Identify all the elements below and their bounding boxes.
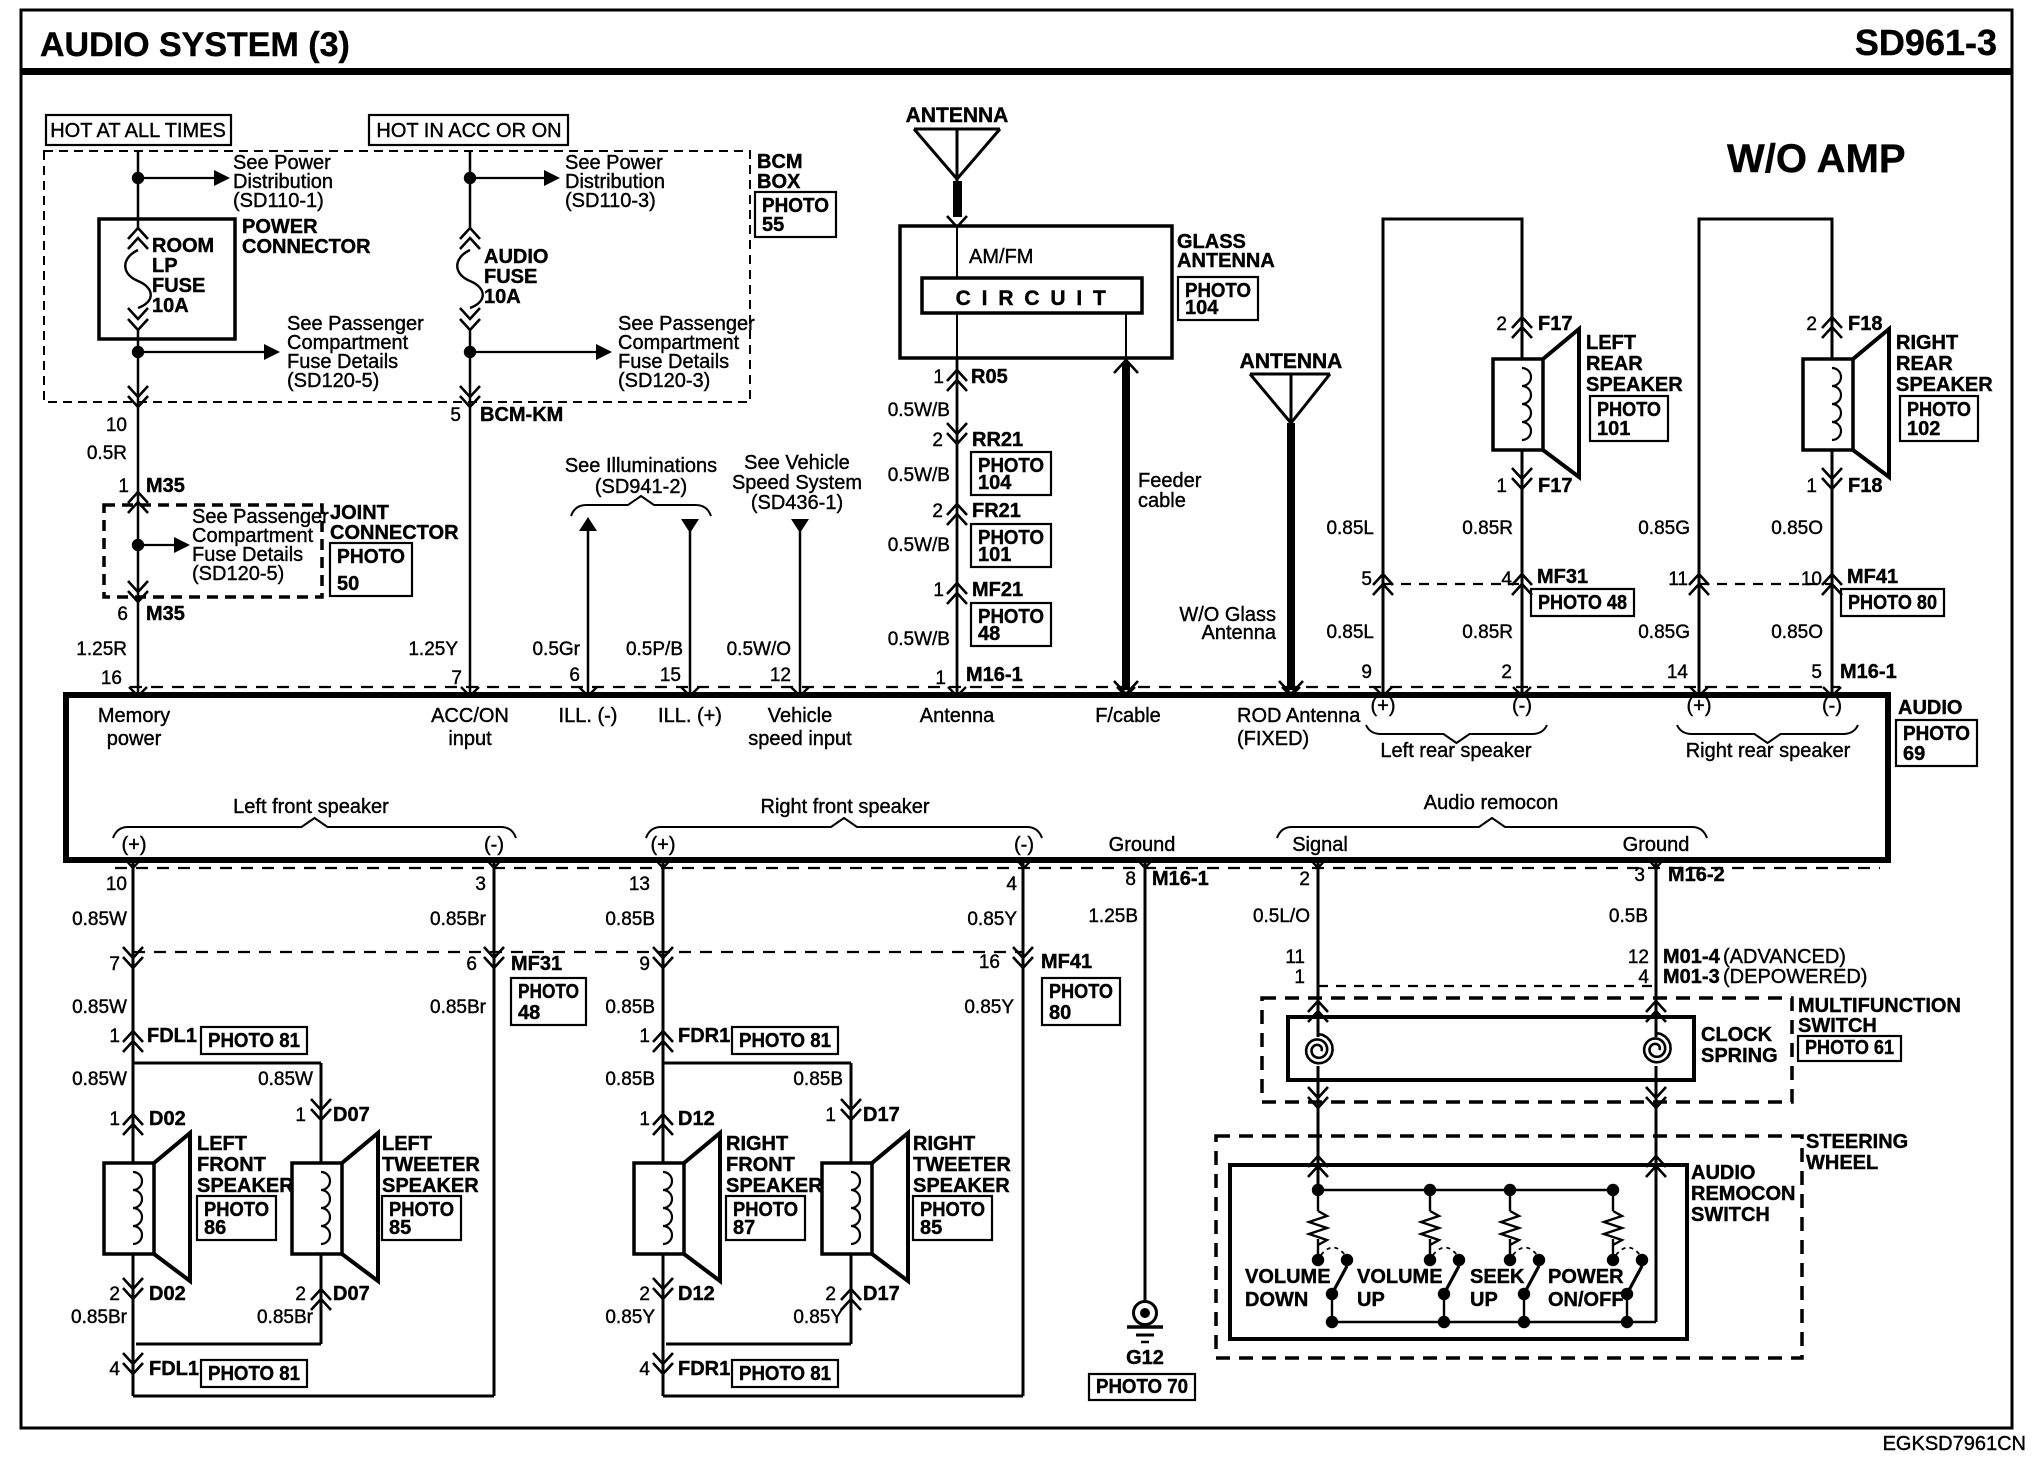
resistor switch 1	[1309, 1211, 1327, 1245]
svg-text:1: 1	[118, 476, 129, 497]
svg-text:MF31: MF31	[511, 953, 562, 975]
rod antenna bottom arrowhead	[1279, 681, 1303, 694]
resistor switch 2	[1421, 1211, 1439, 1245]
svg-text:0.5W/O: 0.5W/O	[727, 639, 791, 660]
svg-text:AUDIO: AUDIO	[484, 246, 548, 268]
svg-text:3: 3	[1634, 865, 1645, 886]
resistor lead switch 2	[1429, 1190, 1431, 1211]
svg-text:0.85Y: 0.85Y	[964, 997, 1014, 1018]
svg-text:10A: 10A	[152, 295, 189, 317]
svg-text:1: 1	[295, 1105, 306, 1126]
svg-text:0.85W: 0.85W	[258, 1069, 313, 1090]
svg-text:ROD Antenna: ROD Antenna	[1237, 705, 1361, 727]
svg-text:LEFT: LEFT	[382, 1133, 432, 1155]
switch 1 fixed contact	[1312, 1254, 1324, 1266]
svg-text:0.5Gr: 0.5Gr	[532, 639, 580, 660]
connector chevron D12 pin 2	[653, 1278, 673, 1299]
svg-text:Speed System: Speed System	[732, 472, 862, 494]
connector chevron D02 pin 2	[123, 1278, 143, 1299]
svg-text:SEEK: SEEK	[1470, 1266, 1525, 1288]
svg-text:4: 4	[1006, 874, 1017, 895]
dashed connector line M01	[1318, 985, 1656, 987]
svg-text:0.85W: 0.85W	[72, 997, 127, 1018]
connector chevron D07 pin 1	[311, 1099, 331, 1120]
svg-text:SPEAKER: SPEAKER	[1896, 374, 1993, 396]
wire signal 0.5L/O to clock spring	[1317, 860, 1320, 1037]
svg-text:2: 2	[932, 501, 943, 522]
junction inside joint connector	[132, 539, 144, 551]
photo ref box PHOTO 70 (G12)	[1089, 1374, 1195, 1400]
wire hot-at-all-times feed	[137, 151, 140, 228]
svg-text:0.85G: 0.85G	[1638, 622, 1690, 643]
svg-text:PHOTO 81: PHOTO 81	[739, 1363, 831, 1385]
svg-text:11: 11	[1285, 947, 1305, 968]
svg-text:15: 15	[660, 665, 681, 686]
svg-text:0.85B: 0.85B	[793, 1069, 843, 1090]
svg-text:FUSE: FUSE	[152, 275, 205, 297]
wire left front speaker bottom return	[133, 1395, 494, 1398]
power connector box	[99, 219, 235, 339]
arrow to passenger fuse details from joint connector	[138, 544, 176, 546]
wire left tweeter drop	[320, 1063, 323, 1163]
svg-text:D07: D07	[333, 1104, 370, 1126]
wire right front speaker bottom return	[663, 1395, 1023, 1398]
switch 2 blade pivot	[1438, 1288, 1450, 1300]
svg-text:(SD120-3): (SD120-3)	[618, 370, 710, 392]
clock spring spiral right	[1644, 1033, 1671, 1062]
svg-text:0.85O: 0.85O	[1771, 622, 1823, 643]
svg-text:LEFT: LEFT	[197, 1133, 247, 1155]
svg-text:0.5B: 0.5B	[1609, 906, 1648, 927]
feeder cable bottom arrowhead	[1114, 681, 1138, 694]
wire left tweeter return	[320, 1254, 323, 1344]
bus top pin antenna	[948, 687, 966, 696]
connector chevron below clock spring right	[1646, 1087, 1666, 1108]
svg-text:80: 80	[1049, 1002, 1071, 1024]
svg-text:(-): (-)	[1822, 695, 1842, 717]
svg-text:FDL1: FDL1	[147, 1025, 197, 1047]
svg-text:HOT AT ALL TIMES: HOT AT ALL TIMES	[50, 120, 226, 142]
svg-text:(-): (-)	[484, 834, 504, 856]
dashed connector line MF31/MF41 front	[133, 951, 1023, 953]
junction on room lp fuse wire	[132, 172, 144, 184]
svg-text:12: 12	[770, 665, 791, 686]
ground symbol G12	[1134, 1302, 1157, 1325]
photo ref box PHOTO 50	[330, 543, 412, 596]
svg-text:Audio remocon: Audio remocon	[1424, 792, 1559, 814]
wire right tweeter drop	[850, 1063, 853, 1163]
svg-text:0.5W/B: 0.5W/B	[888, 629, 950, 650]
photo ref box PHOTO 81 (FDR1 pin 4)	[732, 1360, 838, 1387]
svg-text:cable: cable	[1138, 490, 1186, 512]
bus top pin vss	[791, 687, 809, 696]
svg-text:PHOTO 81: PHOTO 81	[208, 1030, 300, 1052]
switch 2 blade	[1445, 1266, 1459, 1292]
svg-text:D07: D07	[333, 1283, 370, 1305]
switch 3 fixed contact	[1504, 1254, 1516, 1266]
svg-text:FR21: FR21	[972, 500, 1021, 522]
wire left front speaker (+) 0.85W	[132, 860, 135, 1163]
svg-text:ANTENNA: ANTENNA	[906, 104, 1009, 127]
wire vehicle speed input 0.5W/O	[799, 521, 802, 695]
svg-text:0.85L: 0.85L	[1326, 518, 1374, 539]
audio remocon switch box	[1230, 1165, 1687, 1339]
svg-text:3: 3	[475, 874, 486, 895]
svg-text:D17: D17	[863, 1104, 900, 1126]
bus top pin lr+	[1374, 687, 1392, 696]
connector chevron MF41 pin 11	[1689, 574, 1709, 595]
svg-text:Ground: Ground	[1109, 834, 1176, 856]
arrow to passenger compartment fuse details (SD120-3)	[470, 351, 598, 353]
svg-text:102: 102	[1907, 418, 1940, 440]
switch 1 blade pivot	[1326, 1288, 1338, 1300]
svg-text:1.25Y: 1.25Y	[408, 639, 458, 660]
svg-text:48: 48	[518, 1002, 540, 1024]
svg-text:(SD436-1): (SD436-1)	[751, 492, 843, 514]
bus bottom pin rgnd	[1647, 858, 1665, 868]
svg-text:PHOTO: PHOTO	[518, 981, 579, 1003]
brace right rear speaker	[1677, 725, 1858, 743]
svg-text:MF41: MF41	[1041, 951, 1092, 973]
svg-text:ANTENNA: ANTENNA	[1240, 350, 1343, 373]
junction top rail switch 4	[1607, 1184, 1619, 1196]
label box HOT IN ACC OR ON	[369, 115, 568, 145]
svg-text:PHOTO 81: PHOTO 81	[739, 1030, 831, 1052]
svg-text:PHOTO 48: PHOTO 48	[1538, 592, 1627, 614]
svg-text:VOLUME: VOLUME	[1357, 1266, 1443, 1288]
switch 4 moving contact	[1636, 1254, 1648, 1266]
junction bottom rail switch 2	[1438, 1316, 1450, 1328]
svg-text:10: 10	[106, 874, 127, 895]
bus top pin memory	[129, 687, 147, 696]
svg-text:RIGHT: RIGHT	[1896, 332, 1958, 354]
svg-text:FRONT: FRONT	[726, 1154, 795, 1176]
right front speaker	[634, 1163, 684, 1254]
svg-text:ANTENNA: ANTENNA	[1177, 250, 1275, 272]
svg-text:85: 85	[389, 1217, 411, 1239]
svg-text:AUDIO: AUDIO	[1898, 697, 1962, 719]
svg-text:AM/FM: AM/FM	[969, 246, 1033, 268]
svg-text:PHOTO 70: PHOTO 70	[1096, 1376, 1188, 1398]
svg-text:Left front speaker: Left front speaker	[233, 796, 389, 818]
svg-text:WHEEL: WHEEL	[1806, 1152, 1878, 1174]
connector chevron FDL1 pin 4	[123, 1353, 143, 1374]
svg-text:M35: M35	[146, 475, 185, 497]
wire right tweeter return	[850, 1254, 853, 1344]
header rule	[21, 68, 2012, 75]
wire right rear speaker (-) 0.85O	[1831, 450, 1834, 695]
bus top pin ill-	[579, 687, 597, 696]
svg-text:TWEETER: TWEETER	[382, 1154, 480, 1176]
photo ref box PHOTO 102 (right rear speaker)	[1900, 396, 1978, 441]
svg-text:48: 48	[978, 623, 1000, 645]
svg-text:D17: D17	[863, 1283, 900, 1305]
connector chevron MF31 pin 7	[123, 947, 143, 968]
svg-text:0.85W: 0.85W	[72, 1069, 127, 1090]
svg-text:ILL. (-): ILL. (-)	[559, 705, 618, 727]
svg-text:(SD110-3): (SD110-3)	[565, 190, 656, 212]
wire fuse output to audio pin 16	[137, 330, 140, 695]
connector chevron D17 pin 1	[841, 1099, 861, 1120]
left tweeter speaker	[292, 1163, 342, 1254]
svg-text:SWITCH: SWITCH	[1691, 1204, 1770, 1226]
svg-text:UP: UP	[1357, 1289, 1385, 1311]
connector chevron D12 pin 1	[653, 1114, 673, 1135]
svg-text:2: 2	[295, 1284, 306, 1305]
wire antenna into circuit	[956, 226, 958, 278]
bus top pin rod	[1282, 687, 1300, 696]
svg-text:5: 5	[1361, 569, 1372, 590]
connector chevron BCM-KM pin 5	[460, 386, 480, 407]
svg-text:(-): (-)	[1512, 695, 1532, 717]
svg-text:SPEAKER: SPEAKER	[726, 1175, 823, 1197]
svg-text:SPEAKER: SPEAKER	[382, 1175, 479, 1197]
svg-text:M16-2: M16-2	[1668, 864, 1725, 886]
svg-text:(+): (+)	[1371, 695, 1396, 717]
feeder cable (thick)	[1122, 362, 1130, 690]
svg-text:(-): (-)	[1014, 834, 1034, 856]
wire branch to right tweeter	[663, 1062, 851, 1065]
svg-text:RIGHT: RIGHT	[913, 1133, 975, 1155]
svg-text:POWER: POWER	[242, 216, 318, 238]
connector chevron below clock spring left	[1308, 1087, 1328, 1108]
svg-text:PHOTO 80: PHOTO 80	[1848, 592, 1937, 614]
svg-text:1: 1	[935, 668, 946, 689]
connector chevron D02 pin 1	[123, 1114, 143, 1135]
wire right front speaker (-) drop	[662, 1254, 665, 1396]
svg-text:speed input: speed input	[748, 728, 852, 750]
connector chevron R05 pin 1	[947, 370, 967, 391]
svg-text:MF31: MF31	[1537, 566, 1588, 588]
svg-text:G12: G12	[1126, 1347, 1164, 1369]
svg-text:STEERING: STEERING	[1806, 1131, 1908, 1153]
arrow to passenger compartment fuse details (SD120-5)	[138, 351, 266, 353]
svg-text:4: 4	[639, 1359, 650, 1380]
svg-text:VOLUME: VOLUME	[1245, 1266, 1331, 1288]
bus bottom pin lf+	[124, 858, 142, 868]
fuse ROOM LP FUSE 10A	[128, 228, 148, 249]
arrow up ILL (-)	[579, 517, 597, 531]
svg-text:1: 1	[1806, 476, 1817, 497]
svg-text:6: 6	[117, 604, 128, 625]
svg-text:SPRING: SPRING	[1701, 1045, 1778, 1067]
svg-text:1: 1	[109, 1109, 120, 1130]
connector chevron FDR1 pin 1	[653, 1031, 673, 1052]
wire left rear speaker (-) 0.85R	[1521, 450, 1524, 695]
svg-text:8: 8	[1125, 869, 1136, 890]
switch 4 blade pivot	[1621, 1288, 1633, 1300]
svg-text:MULTIFUNCTION: MULTIFUNCTION	[1798, 995, 1961, 1017]
svg-text:9: 9	[639, 954, 650, 975]
svg-text:F18: F18	[1848, 313, 1882, 335]
wire hot-in-acc feed	[469, 151, 472, 228]
photo ref box PHOTO 104 (glass antenna)	[1178, 277, 1258, 320]
svg-text:(+): (+)	[122, 834, 147, 856]
connector chevron into remocon switch right	[1646, 1156, 1666, 1177]
svg-text:16: 16	[101, 668, 122, 689]
wire right front speaker (+) 0.85B	[662, 860, 665, 1163]
svg-text:(SD120-5): (SD120-5)	[287, 370, 379, 392]
connector chevron MF41 pin 9	[653, 947, 673, 968]
svg-text:0.85Y: 0.85Y	[605, 1307, 655, 1328]
switch 2 dashed throw arc	[1433, 1248, 1457, 1256]
svg-text:MF21: MF21	[972, 579, 1023, 601]
multifunction switch dashed box	[1262, 998, 1792, 1102]
photo ref box PHOTO 48 (MF31 front)	[511, 978, 586, 1025]
svg-text:EGKSD7961CN: EGKSD7961CN	[1883, 1433, 2026, 1455]
svg-text:F18: F18	[1848, 475, 1882, 497]
wire right rear speaker (+) 0.85G	[1699, 219, 1832, 695]
svg-text:D12: D12	[678, 1108, 715, 1130]
steering wheel dashed box	[1216, 1136, 1802, 1358]
svg-text:(SD120-5): (SD120-5)	[192, 563, 284, 585]
svg-text:2: 2	[825, 1284, 836, 1305]
svg-text:SPEAKER: SPEAKER	[197, 1175, 294, 1197]
photo ref box PHOTO 55	[755, 192, 836, 237]
svg-text:M01-4: M01-4	[1663, 946, 1721, 968]
resistor switch 3	[1501, 1211, 1519, 1245]
switch 4 dashed throw arc	[1616, 1248, 1640, 1256]
svg-text:LP: LP	[152, 255, 178, 277]
svg-text:0.85O: 0.85O	[1771, 518, 1823, 539]
wire circuit to feeder output	[1125, 313, 1127, 358]
junction bottom rail switch 4	[1621, 1316, 1633, 1328]
switch 2 fixed contact	[1424, 1254, 1436, 1266]
svg-text:M35: M35	[146, 603, 185, 625]
photo ref box PHOTO 101 (FR21)	[971, 524, 1051, 567]
svg-text:HOT IN ACC OR ON: HOT IN ACC OR ON	[376, 120, 561, 142]
svg-text:1: 1	[933, 580, 944, 601]
right tweeter speaker	[822, 1163, 872, 1254]
wire antenna lead R05 chain	[956, 358, 959, 695]
svg-text:0.85B: 0.85B	[605, 997, 655, 1018]
svg-text:PHOTO 61: PHOTO 61	[1805, 1037, 1894, 1059]
svg-text:Memory: Memory	[98, 705, 170, 727]
svg-text:See Illuminations: See Illuminations	[565, 455, 717, 477]
svg-text:M16-1: M16-1	[1152, 868, 1209, 890]
svg-text:0.85R: 0.85R	[1462, 518, 1513, 539]
connector chevron M01 ground	[1646, 1001, 1666, 1022]
inner CIRCUIT box	[922, 278, 1142, 313]
photo ref box PHOTO 80 (MF41)	[1841, 589, 1944, 616]
svg-text:LEFT: LEFT	[1586, 332, 1636, 354]
svg-text:87: 87	[733, 1217, 755, 1239]
svg-text:REAR: REAR	[1586, 353, 1643, 375]
switch 4 fixed contact	[1607, 1254, 1619, 1266]
wire left tweeter return horizontal	[136, 1343, 321, 1346]
svg-text:ILL. (+): ILL. (+)	[658, 705, 722, 727]
svg-text:5: 5	[450, 405, 461, 426]
arrow to power distribution (SD110-3)	[470, 177, 546, 179]
svg-text:1: 1	[1496, 476, 1507, 497]
bus top pin fcable	[1117, 687, 1135, 696]
photo ref box PHOTO 69 (audio unit)	[1896, 720, 1977, 766]
svg-text:4: 4	[109, 1359, 120, 1380]
AM/FM unit box	[900, 226, 1172, 358]
svg-text:PHOTO: PHOTO	[1903, 723, 1970, 745]
svg-text:CONNECTOR: CONNECTOR	[242, 236, 371, 258]
photo ref box PHOTO 81 (FDL1 pin 4)	[201, 1360, 307, 1387]
svg-text:101: 101	[1597, 418, 1630, 440]
svg-text:JOINT: JOINT	[330, 502, 389, 524]
connector chevron MF31 pin 4	[1512, 574, 1532, 595]
svg-text:Signal: Signal	[1292, 834, 1348, 856]
remocon top rail	[1318, 1189, 1613, 1192]
svg-text:0.85W: 0.85W	[72, 909, 127, 930]
dashed connector line MF31	[1383, 583, 1522, 585]
svg-text:SPEAKER: SPEAKER	[1586, 374, 1683, 396]
svg-text:13: 13	[629, 874, 650, 895]
svg-text:10A: 10A	[484, 286, 521, 308]
svg-text:BCM: BCM	[757, 151, 803, 173]
svg-text:F17: F17	[1538, 313, 1572, 335]
svg-text:11: 11	[1668, 569, 1688, 590]
connector chevron FDR1 pin 4	[653, 1353, 673, 1374]
resistor switch 4	[1604, 1211, 1622, 1245]
resistor lead switch 4	[1612, 1190, 1614, 1211]
joint connector dashed box	[104, 505, 322, 597]
svg-text:101: 101	[978, 544, 1011, 566]
svg-text:PHOTO: PHOTO	[337, 546, 405, 568]
svg-text:AUDIO SYSTEM (3): AUDIO SYSTEM (3)	[40, 26, 350, 64]
svg-text:MF41: MF41	[1847, 566, 1898, 588]
connector chevron M35 pin 1	[128, 492, 148, 513]
connector chevron F18 pin 2	[1822, 317, 1842, 338]
svg-text:D02: D02	[149, 1108, 186, 1130]
bus bottom pin signal	[1309, 858, 1327, 868]
photo ref box PHOTO 61	[1798, 1036, 1901, 1061]
fuse AUDIO FUSE 10A	[460, 228, 480, 249]
svg-text:1: 1	[639, 1026, 650, 1047]
svg-text:M16-1: M16-1	[1840, 661, 1897, 683]
switch 3 wire to bottom rail	[1523, 1294, 1525, 1322]
svg-text:2: 2	[639, 1284, 650, 1305]
svg-text:DOWN: DOWN	[1245, 1289, 1308, 1311]
resistor lead switch 3	[1509, 1190, 1511, 1211]
svg-text:Antenna: Antenna	[1201, 622, 1276, 644]
left rear speaker	[1493, 359, 1543, 450]
svg-text:0.85Br: 0.85Br	[71, 1307, 128, 1328]
switch 2 wire to bottom rail	[1443, 1294, 1445, 1322]
svg-text:(SD110-1): (SD110-1)	[233, 190, 324, 212]
svg-text:Left rear speaker: Left rear speaker	[1380, 740, 1532, 762]
svg-text:2: 2	[1501, 662, 1512, 683]
svg-text:86: 86	[204, 1217, 226, 1239]
photo ref box PHOTO 85 (right tweeter)	[913, 1196, 992, 1240]
svg-text:REMOCON: REMOCON	[1691, 1183, 1795, 1205]
svg-text:9: 9	[1361, 662, 1372, 683]
svg-text:2: 2	[109, 1284, 120, 1305]
svg-text:1: 1	[1294, 967, 1305, 988]
switch 3 moving contact	[1533, 1254, 1545, 1266]
junction top rail switch 3	[1504, 1184, 1516, 1196]
audio head unit box	[66, 695, 1888, 860]
wire remocon ground 0.5B to clock spring	[1655, 860, 1658, 1037]
junction top rail switch 2	[1424, 1184, 1436, 1196]
svg-text:69: 69	[1903, 743, 1925, 765]
bus top pin rr+	[1690, 687, 1708, 696]
photo ref box PHOTO 101 (left rear speaker)	[1590, 396, 1668, 441]
svg-text:REAR: REAR	[1896, 353, 1953, 375]
dashed line above bus top pins	[130, 686, 1840, 688]
wire ILL (-) input 0.5Gr	[587, 530, 590, 695]
svg-text:SWITCH: SWITCH	[1798, 1015, 1877, 1037]
svg-text:5: 5	[1811, 662, 1822, 683]
dashed line below bus bottom pins	[115, 867, 1880, 869]
svg-text:Vehicle: Vehicle	[768, 705, 833, 727]
photo ref box PHOTO 104 (RR21)	[971, 452, 1051, 495]
wire ILL (+) input 0.5P/B	[689, 521, 692, 695]
